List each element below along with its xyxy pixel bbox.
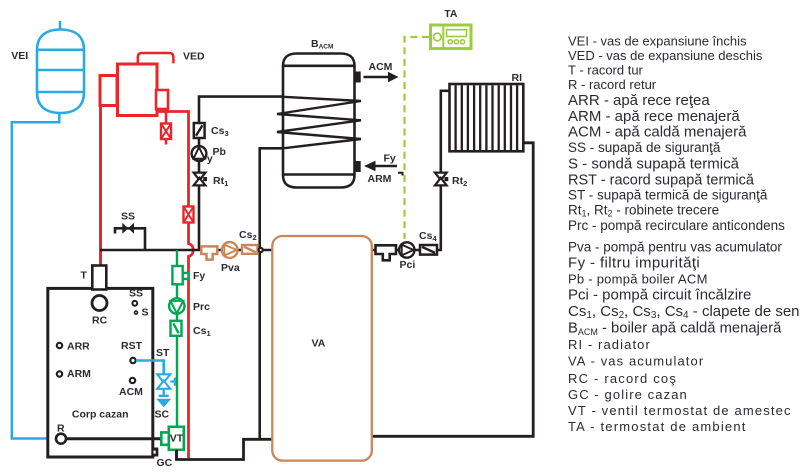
port ARR xyxy=(57,343,62,348)
arrow SC discharge xyxy=(156,399,171,408)
svg-text:ST - supapă termică de siguran: ST - supapă termică de siguranţă xyxy=(568,187,768,202)
svg-text:ARR: ARR xyxy=(67,340,90,352)
svg-text:VEI - vas de expansiune închis: VEI - vas de expansiune închis xyxy=(568,34,747,49)
vessel VEI xyxy=(37,21,84,113)
svg-text:VT: VT xyxy=(170,433,184,445)
wire black supply header xyxy=(100,249,272,252)
svg-text:R: R xyxy=(57,423,65,435)
svg-text:Pci: Pci xyxy=(400,259,416,271)
svg-text:ACM: ACM xyxy=(119,386,143,398)
svg-text:VA - vas acumulator: VA - vas acumulator xyxy=(568,354,704,369)
svg-text:ARR - apă rece reţea: ARR - apă rece reţea xyxy=(568,92,710,109)
tick ARM line end xyxy=(398,173,403,176)
svg-text:Pb: Pb xyxy=(213,146,226,158)
pump Pva xyxy=(222,242,238,258)
valve ST thermal xyxy=(157,374,175,389)
valve Rt1 xyxy=(194,173,207,186)
svg-text:GC - golire cazan: GC - golire cazan xyxy=(568,387,688,402)
radiator RI xyxy=(450,84,524,151)
blue line RST to ST valve xyxy=(136,361,164,375)
svg-text:TA - termostat de ambient: TA - termostat de ambient xyxy=(568,419,747,434)
wire VT outlet stub xyxy=(175,450,178,459)
svg-text:Pva - pompă pentru vas acumula: Pva - pompă pentru vas acumulator xyxy=(568,240,782,255)
legend block xyxy=(568,34,800,434)
coil heat exchanger zigzag xyxy=(277,97,361,149)
svg-text:VED: VED xyxy=(183,50,205,62)
svg-text:ACM: ACM xyxy=(369,61,393,73)
svg-text:T: T xyxy=(81,269,88,281)
svg-text:ARM: ARM xyxy=(67,368,91,380)
check valve Cs3 xyxy=(194,123,205,138)
svg-text:VEI: VEI xyxy=(11,50,28,62)
wire green anticondensation line xyxy=(176,250,178,428)
wire return pipe R to VT xyxy=(66,437,162,440)
svg-text:Pci - pompă circuit încălzire: Pci - pompă circuit încălzire xyxy=(568,287,751,304)
check valve Cs4 xyxy=(420,245,437,255)
svg-text:Prc: Prc xyxy=(193,301,210,313)
thermostat TA dashed control line xyxy=(405,37,430,239)
svg-text:RST: RST xyxy=(121,340,143,352)
svg-text:ACM - apă caldă menajeră: ACM - apă caldă menajeră xyxy=(568,124,747,141)
svg-text:RI: RI xyxy=(512,72,523,84)
svg-text:TA: TA xyxy=(444,8,458,20)
svg-text:Fy: Fy xyxy=(193,270,205,282)
arrow ARM in xyxy=(364,161,397,171)
svg-text:Rt1, Rt2 - robinete trecere: Rt1, Rt2 - robinete trecere xyxy=(568,202,719,218)
wire red pipe VED left down to boiler T stub xyxy=(99,104,102,268)
port RC circle xyxy=(92,296,107,311)
port S dot xyxy=(135,311,138,314)
wire heating branch from VA to Pci xyxy=(372,249,420,252)
pipe VED vent gooseneck xyxy=(138,53,174,64)
svg-text:Fy - filtru impurităţi: Fy - filtru impurităţi xyxy=(568,255,700,272)
svg-text:GC: GC xyxy=(157,457,173,469)
wire black riser to boiler coil top xyxy=(199,97,283,250)
filter Fy xyxy=(172,266,188,284)
check valve Cs1 xyxy=(171,321,182,336)
svg-text:SC: SC xyxy=(155,409,170,421)
svg-text:ARM - apă rece menajeră: ARM - apă rece menajeră xyxy=(568,108,740,125)
wire ST to SC xyxy=(159,389,169,396)
vessel VED main box xyxy=(118,64,158,116)
check valve Cs2 xyxy=(242,245,258,254)
svg-text:SS - supapă de siguranţă: SS - supapă de siguranţă xyxy=(568,140,721,155)
wire red pipe VED right branch with hop over black header xyxy=(157,112,193,459)
svg-text:Pva: Pva xyxy=(221,262,240,274)
svg-text:S - sondă supapă termică: S - sondă supapă termică xyxy=(568,156,740,173)
svg-text:VED - vas de expansiune deschi: VED - vas de expansiune deschis xyxy=(568,48,763,63)
svg-text:RST - racord supapă termică: RST - racord supapă termică xyxy=(568,172,755,188)
vessel VED right small box xyxy=(156,90,168,109)
wire blue pipe VEI to R xyxy=(12,112,60,439)
valve SS safety xyxy=(122,223,134,234)
pump Pci xyxy=(399,242,414,257)
arrow ACM out xyxy=(364,72,399,82)
svg-text:Prc - pompă recirculare antico: Prc - pompă recirculare anticondens xyxy=(568,218,785,233)
port ARM xyxy=(57,371,62,376)
svg-text:VT - ventil termostat de amest: VT - ventil termostat de amestec xyxy=(568,403,792,418)
wire black coil return riser xyxy=(260,148,283,439)
svg-text:Pb - pompă boiler ACM: Pb - pompă boiler ACM xyxy=(568,271,708,286)
svg-text:SS: SS xyxy=(121,211,135,223)
wire VED drain stub xyxy=(165,109,168,145)
pump Pb xyxy=(192,146,207,161)
valve red drain under VED xyxy=(161,124,171,140)
svg-text:VA: VA xyxy=(312,338,326,350)
vessel VED left small box xyxy=(100,76,117,106)
port RST xyxy=(130,358,135,363)
svg-text:T - racord tur: T - racord tur xyxy=(568,62,644,77)
svg-text:S: S xyxy=(142,307,149,319)
fitting tee at Pva xyxy=(201,246,217,259)
svg-text:RC: RC xyxy=(92,315,108,327)
boiler Corp cazan box xyxy=(48,288,153,457)
pump Prc xyxy=(169,298,184,313)
valve VT mixing xyxy=(161,427,184,450)
fitting tee at Pci xyxy=(376,245,397,260)
thermostat TA box xyxy=(431,25,472,49)
svg-text:RC - racord coş: RC - racord coş xyxy=(568,371,677,386)
port ARM xyxy=(354,161,361,172)
fitting T stub on boiler xyxy=(92,266,106,290)
boiler BACM vessel xyxy=(283,54,355,188)
wire radiator return pipe xyxy=(372,143,533,437)
valve Rt2 xyxy=(435,173,448,186)
svg-text:Fy: Fy xyxy=(384,153,396,165)
port R circle xyxy=(56,434,66,444)
svg-text:ARM: ARM xyxy=(368,173,392,185)
fitting GC drain xyxy=(154,448,159,457)
port SS circle xyxy=(132,301,137,306)
wire bottom return line VT to VA xyxy=(177,439,273,459)
port ACM xyxy=(354,72,361,83)
port ACM xyxy=(130,378,135,383)
wire SS branch xyxy=(115,228,145,250)
svg-text:Corp cazan: Corp cazan xyxy=(72,409,129,421)
svg-text:ST: ST xyxy=(156,347,170,359)
svg-text:R - racord retur: R - racord retur xyxy=(568,77,657,92)
node junction ring xyxy=(259,248,263,252)
svg-text:BACM - boiler apă caldă menaje: BACM - boiler apă caldă menajeră xyxy=(568,321,782,338)
wire radiator supply pipe xyxy=(435,91,450,250)
svg-text:RI - radiator: RI - radiator xyxy=(568,337,651,352)
valve red on VED right branch xyxy=(184,207,194,223)
tank VA xyxy=(272,236,372,461)
svg-text:SS: SS xyxy=(129,287,143,299)
